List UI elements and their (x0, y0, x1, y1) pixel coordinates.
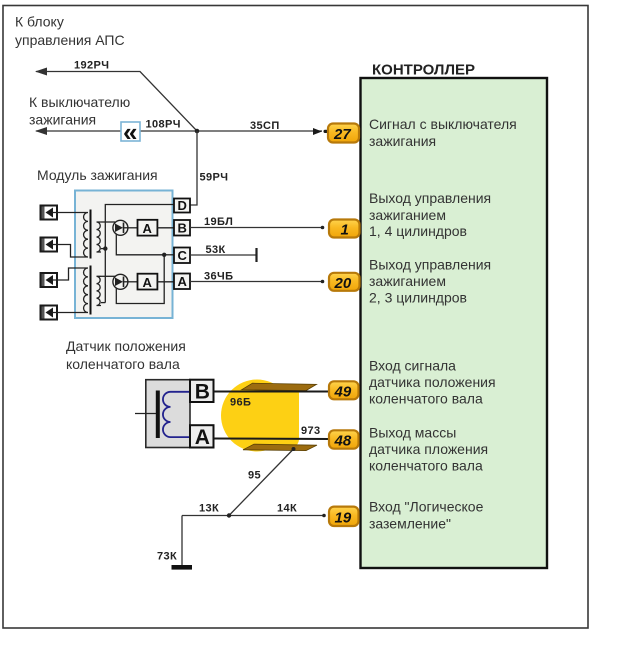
svg-text:A: A (178, 274, 188, 289)
svg-text:Вход "Логическое: Вход "Логическое (369, 499, 484, 515)
svg-text:59РЧ: 59РЧ (200, 172, 229, 184)
svg-text:48: 48 (334, 433, 352, 450)
svg-text:заземление": заземление" (369, 516, 451, 532)
controller pin 48 (329, 430, 359, 449)
junction node on bus (103, 246, 107, 250)
transformer T2 primary coil (80, 268, 88, 313)
svg-text:A: A (143, 275, 153, 290)
sensor coil (blue) (163, 392, 190, 437)
svg-text:973: 973 (301, 425, 321, 437)
connector terminal 1 (41, 206, 58, 220)
transformer T2 secondary coil (97, 276, 102, 305)
svg-text:КОНТРОЛЛЕР: КОНТРОЛЛЕР (372, 62, 475, 79)
svg-text:27: 27 (333, 126, 351, 143)
sensor left lead (135, 413, 156, 415)
connector terminal 2 (41, 238, 58, 252)
svg-text:коленчатого вала: коленчатого вала (369, 458, 483, 474)
junction node at 197,131 (195, 129, 200, 134)
svg-text:датчика пложения: датчика пложения (369, 441, 488, 457)
svg-text:Сигнал с выключателя: Сигнал с выключателя (369, 116, 517, 132)
svg-text:B: B (178, 221, 187, 236)
svg-text:20: 20 (334, 275, 352, 292)
svg-text:К блоку: К блоку (15, 14, 64, 30)
amplifier A2 box (138, 274, 158, 290)
svg-text:Вход сигнала: Вход сигнала (369, 358, 456, 374)
svg-text:95: 95 (248, 470, 261, 482)
svg-text:К выключателю: К выключателю (29, 94, 130, 110)
svg-text:35СП: 35СП (250, 120, 280, 132)
svg-text:Датчик положения: Датчик положения (66, 338, 186, 354)
controller pin 49 (329, 381, 359, 400)
svg-text:управления АПС: управления АПС (15, 32, 125, 48)
module pin C box (174, 248, 190, 264)
ignition module box (75, 191, 173, 319)
wire connector4 to primary2 bottom (52, 312, 80, 314)
svg-text:A: A (143, 221, 153, 236)
svg-text:Выход управления: Выход управления (369, 257, 491, 273)
wire transistor1 emitter loop to C line (116, 234, 164, 255)
wire A2 to pin A (157, 281, 174, 283)
svg-text:A: A (195, 426, 210, 449)
transistor Q1 (113, 220, 128, 235)
transformer T1 primary coil (80, 213, 88, 258)
amplifier A1 box (138, 220, 158, 236)
controller pin 20 (329, 273, 360, 292)
svg-text:зажигания: зажигания (29, 112, 96, 128)
wire 73К down to ground (181, 516, 183, 566)
shielded cable (yellow insulation) (221, 380, 293, 452)
transistor Q2 (113, 274, 128, 289)
wire transistor1 to amplifier A1 (128, 227, 138, 229)
svg-text:19: 19 (335, 510, 352, 527)
wire transistor2 to amplifier A2 (128, 281, 138, 283)
svg-text:49: 49 (334, 383, 352, 400)
wire connector1 to primary1 top (52, 212, 80, 214)
svg-text:108РЧ: 108РЧ (146, 119, 181, 131)
svg-text:зажигания: зажигания (369, 133, 436, 149)
svg-text:14К: 14К (277, 503, 297, 515)
controller pin 1 (329, 220, 360, 239)
svg-text:53К: 53К (206, 244, 226, 256)
svg-text:19БЛ: 19БЛ (204, 216, 233, 228)
svg-text:Модуль зажигания: Модуль зажигания (37, 167, 158, 183)
module pin B box (174, 220, 190, 236)
transformer T1 secondary coil (97, 222, 102, 252)
wire secondary1 bottom to vertical bus (101, 248, 105, 250)
svg-text:1: 1 (341, 222, 349, 239)
svg-text:13К: 13К (199, 503, 219, 515)
svg-text:36ЧБ: 36ЧБ (204, 271, 233, 283)
svg-text:«: « (123, 117, 137, 147)
wire secondary2 top to transistor2 (101, 275, 115, 277)
svg-text:коленчатого вала: коленчатого вала (66, 356, 180, 372)
shield wrap top bar (242, 383, 317, 390)
wire vertical bus to D (105, 205, 174, 303)
svg-text:датчика положения: датчика положения (369, 374, 496, 390)
svg-text:2, 3 цилиндров: 2, 3 цилиндров (369, 290, 467, 306)
svg-text:коленчатого вала: коленчатого вала (369, 391, 483, 407)
wire 96Б from sensor B to pin 49 (214, 391, 330, 393)
svg-text:C: C (178, 248, 188, 263)
wire C line into pin C (164, 254, 174, 256)
wire 36ЧБ from A to pin 20 (190, 281, 321, 283)
wire connector3 to primary2 top (52, 268, 80, 280)
sensor magnet core bar (156, 391, 160, 439)
shield wrap bottom bar (243, 444, 317, 450)
transformer T1 core (90, 210, 92, 259)
svg-text:Выход массы: Выход массы (369, 425, 456, 441)
wire connector2 to primary1 bottom (52, 245, 80, 258)
ground symbol (172, 565, 193, 570)
crankshaft position sensor body (146, 380, 190, 448)
svg-text:1, 4 цилиндров: 1, 4 цилиндров (369, 223, 467, 239)
wire secondary2 bottom to vertical bus (101, 302, 105, 304)
svg-text:Выход управления: Выход управления (369, 190, 491, 206)
wire 53К from C, terminated (190, 254, 256, 256)
wire 95 shield drain (229, 449, 294, 516)
wire transistor2 emitter loop to C line (116, 255, 164, 304)
svg-text:зажиганием: зажиганием (369, 273, 446, 289)
svg-text:192РЧ: 192РЧ (74, 60, 109, 72)
wire secondary1 top to transistor1 (101, 221, 115, 223)
transformer T2 core (90, 266, 92, 315)
sensor pin B box (190, 380, 214, 402)
arrowhead into pin 27 (313, 128, 322, 135)
wire 192РЧ to APS control unit (36, 72, 197, 132)
wire 19БЛ from B to pin 1 (190, 227, 321, 229)
connector symbol «« on 108РЧ wire (121, 122, 140, 141)
controller pin 19 (329, 507, 359, 527)
svg-text:D: D (178, 198, 187, 213)
wire 59РЧ from junction down to D pin (190, 131, 197, 205)
wire A1 to pin B (157, 227, 174, 229)
wire 108РЧ / 35СП to ignition switch (36, 130, 322, 132)
junction node at ground bus (227, 513, 231, 517)
module pin D box (174, 199, 190, 213)
connector terminal 3 (41, 273, 58, 287)
controller box (361, 78, 548, 568)
junction node on C line (162, 253, 166, 257)
svg-text:73К: 73К (157, 551, 177, 563)
wire 973 from sensor A to pin 48 (214, 438, 330, 441)
connector terminal 4 (41, 306, 58, 320)
wire 13К/14К ground bus to pin 19 (182, 515, 323, 517)
svg-text:зажиганием: зажиганием (369, 207, 446, 223)
svg-text:96Б: 96Б (230, 397, 251, 409)
module pin A box (174, 274, 190, 290)
controller pin 27 (328, 124, 359, 144)
svg-text:B: B (195, 381, 210, 404)
sensor pin A box (190, 425, 214, 447)
